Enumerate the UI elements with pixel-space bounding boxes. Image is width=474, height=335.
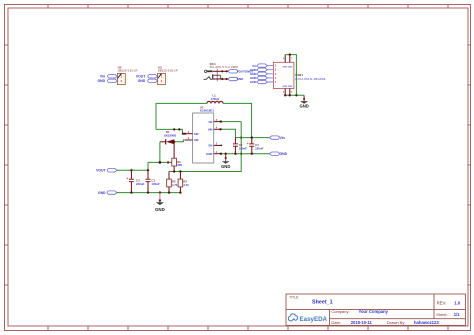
net flag GND (USB1 pin3) [250, 72, 267, 76]
svg-text:SW: SW [194, 138, 199, 142]
svg-text:GND: GND [138, 79, 146, 83]
pin 5 FB U1 [209, 118, 220, 124]
resistor R1 [172, 142, 183, 172]
svg-text:1.0: 1.0 [454, 300, 460, 305]
USB1 shield pins bottom [283, 89, 293, 96]
svg-text:VOUT: VOUT [136, 75, 146, 79]
wire Vin top rail [235, 137, 269, 139]
svg-text:20K: 20K [177, 163, 182, 167]
ground symbol (bottom) [155, 199, 165, 212]
svg-text:GND: GND [250, 80, 258, 84]
capacitor C1 [146, 170, 160, 192]
connector U3 [158, 66, 178, 85]
svg-text:SW: SW [194, 132, 199, 136]
wire diode row to SW pin 6 [174, 140, 185, 142]
wire GND row [117, 192, 180, 194]
capacitor C3 [126, 170, 144, 192]
pin 1 GND U1 [206, 150, 220, 156]
junction VIN [219, 128, 221, 130]
USB1 pin numbers 1-5 [275, 64, 277, 84]
net flag GND (DC1) [228, 77, 244, 81]
svg-text:Vin: Vin [100, 75, 105, 79]
USB1 shield pin names [283, 66, 293, 87]
wire GND bottom rail [220, 153, 269, 155]
svg-text:Drawn By:: Drawn By: [387, 320, 405, 325]
svg-text:+: + [126, 177, 128, 181]
svg-text:Vin: Vin [280, 136, 285, 140]
ground symbol (U1) [221, 154, 230, 169]
svg-text:U254-051N-4BH806: U254-051N-4BH806 [295, 77, 326, 81]
net flag VOUT (left) [96, 169, 117, 173]
net flag GND (U3 pin2) [138, 79, 158, 83]
junctions USB ground rail [284, 94, 298, 96]
junction dots DC1 pin3 [221, 78, 228, 80]
pin 3 SW U1 [185, 130, 199, 136]
wire SW node row [156, 129, 185, 133]
wire FB to divider [220, 121, 241, 123]
net flag GND (right) [269, 152, 287, 156]
ground symbol (USB) [299, 95, 308, 108]
svg-text:Company:: Company: [331, 309, 349, 314]
svg-text:220uF: 220uF [255, 147, 264, 151]
wire feedback divider row [169, 122, 241, 172]
pin wire DC1 pin3 [213, 78, 228, 80]
svg-text:DC-005-5.5-2.0MM: DC-005-5.5-2.0MM [210, 65, 239, 69]
svg-text:GND: GND [98, 191, 106, 195]
svg-text:GND: GND [98, 79, 106, 83]
wire VOUT link row [148, 161, 172, 163]
junction dots DC1 pin1 [221, 70, 228, 72]
junction USB shield top [289, 53, 291, 55]
svg-text:GND: GND [155, 207, 165, 212]
resistor R3 [178, 172, 189, 193]
svg-text:SK2200B: SK2200B [164, 134, 176, 138]
net flag GND (left) [98, 191, 117, 195]
pin 6 SW U1 [185, 136, 199, 142]
svg-text:GND: GND [280, 152, 288, 156]
resistor R2 [167, 172, 178, 193]
junctions GND row [130, 191, 181, 193]
DC jack DC1 [204, 62, 239, 82]
wire to bottom ground [159, 193, 161, 201]
svg-text:DB125-3.81-2P: DB125-3.81-2P [158, 69, 178, 73]
pin wire DC1 pin1 [213, 70, 228, 72]
svg-text:GND: GND [221, 164, 230, 169]
svg-text:VIN: VIN [208, 128, 213, 132]
svg-text:TITLE:: TITLE: [289, 296, 299, 300]
svg-text:XL6019E1: XL6019E1 [200, 109, 215, 113]
svg-text:4.7k: 4.7k [172, 183, 178, 187]
svg-text:100nF: 100nF [151, 182, 160, 186]
net flag GND (U2 pin2) [98, 79, 118, 83]
pin 4 VIN U1 [208, 126, 220, 132]
junctions SW node row [173, 128, 186, 135]
svg-text:GND: GND [206, 152, 212, 156]
junction VOUT link b [167, 161, 169, 163]
svg-text:Date:: Date: [331, 320, 341, 325]
USB1 pin stubs [267, 66, 273, 82]
svg-text:2019-10-11: 2019-10-11 [351, 320, 373, 325]
USB connector USB1 [273, 62, 325, 88]
svg-text:Your Company: Your Company [359, 309, 389, 314]
EasyEDA logo [288, 314, 327, 323]
svg-text:GND: GND [299, 104, 308, 109]
diode D1 [160, 130, 176, 144]
svg-text:VOUT: VOUT [96, 169, 106, 173]
op-amp U1 XL6019E1 body [193, 105, 215, 163]
junctions VOUT row [130, 169, 149, 171]
svg-text:EN: EN [209, 144, 213, 148]
wire VIN to rail [220, 129, 235, 137]
wire L1 to Vin rail [223, 103, 252, 137]
net flag VOUT (U3 pin1) [136, 75, 158, 79]
svg-text:GND: GND [288, 66, 293, 68]
net flag GND (USB1 pin2) [250, 68, 267, 72]
wire top loop left [156, 103, 207, 129]
net flag GND (USB1 pin4) [250, 76, 267, 80]
wire diode cathode drop [159, 142, 161, 163]
net flag GND (USB1 pin5) [250, 80, 267, 84]
capacitor C4 [247, 138, 264, 154]
junction L1/C4 on rail [251, 136, 253, 138]
junctions GND rail [220, 153, 253, 155]
svg-text:470uH: 470uH [211, 97, 220, 101]
svg-text:GND: GND [237, 77, 245, 81]
junction VOUT link a [159, 161, 162, 164]
capacitor C2 [233, 138, 247, 154]
svg-text:1/1: 1/1 [454, 312, 460, 317]
pin 2 EN U1 [209, 142, 223, 148]
USB1 shield pins top [283, 55, 293, 63]
svg-text:Sheet_1: Sheet_1 [312, 300, 333, 306]
svg-text:Sheet:: Sheet: [436, 312, 448, 317]
svg-text:REV:: REV: [437, 300, 447, 305]
net flag VOUT (DC1) [228, 70, 245, 74]
svg-text:hahawoz123: hahawoz123 [414, 320, 439, 325]
svg-text:EasyEDA: EasyEDA [300, 316, 328, 323]
wire VOUT row [117, 162, 148, 170]
net flag Vin (USB1 pin1) [252, 64, 267, 68]
junction FB [220, 120, 222, 122]
svg-text:FB: FB [209, 120, 213, 124]
net flag Vin (right) [269, 136, 284, 140]
svg-text:100nF: 100nF [239, 147, 248, 151]
svg-text:220uF: 220uF [136, 182, 145, 186]
net flag Vin (U2 pin1) [100, 75, 118, 79]
title block [286, 294, 465, 325]
svg-text:GND: GND [288, 86, 293, 88]
wire USB ground rail [285, 94, 304, 96]
junction diode anode / R1 top [173, 141, 175, 143]
svg-text:DB125-3.81-2P: DB125-3.81-2P [118, 69, 138, 73]
connector U2 [117, 66, 137, 85]
wire USB shield top to right [285, 55, 296, 96]
svg-text:+: + [247, 142, 249, 146]
inductor L1 [207, 94, 223, 104]
junctions divider row [173, 137, 242, 173]
svg-text:4.7k: 4.7k [183, 183, 189, 187]
